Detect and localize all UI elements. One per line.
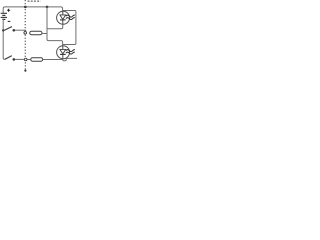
terminal ring below switch S1 wire — [24, 32, 27, 35]
lamp D2 light waves — [66, 50, 75, 55]
lamp D2 cathode stem — [62, 54, 64, 58]
battery B1 positive long plate — [1, 12, 7, 14]
linkage dashed vertical lower segment — [24, 62, 26, 69]
wire left rail from battery - down to switch S2 — [3, 19, 5, 59]
wire from switch S1 contact to linkage — [15, 29, 26, 31]
switch S2 contact dot — [13, 58, 16, 61]
lamp D1 diode triangle — [60, 15, 66, 20]
lamp D2 cathode bar — [60, 53, 66, 55]
node junction dot switch S1 pivot on left rail — [2, 29, 4, 31]
terminal ring on bottom resistor row — [24, 58, 27, 61]
lamp D1 circle — [57, 11, 70, 24]
wire lamp D1 bottom return to middle vertical — [47, 24, 63, 28]
switch S1 blade — [4, 27, 12, 31]
battery B1 positive long plate 2 — [1, 16, 7, 18]
switch S2 blade — [5, 56, 12, 60]
battery B1 negative short plate 2 — [2, 18, 5, 20]
lamp D2 anode stem — [62, 46, 64, 50]
linkage dashed horizontal at top — [28, 0, 41, 2]
node junction dot on top rail at middle drop wire — [46, 6, 49, 9]
lamp D1 cathode bar — [60, 19, 66, 21]
linkage dashed vertical middle segment — [24, 35, 26, 58]
wire branch at lamp D1 top going right — [63, 11, 76, 45]
lamp D1 light waves — [66, 15, 75, 20]
wire middle vertical drop from top rail to lamp D2 feed — [47, 7, 63, 46]
battery B1 plus label — [7, 9, 10, 12]
lamp D2 circle — [57, 46, 70, 59]
node junction dot on top rail at dashed linkage — [24, 6, 27, 9]
lamp D1 anode stem — [62, 11, 64, 15]
node solid dot near bottom of linkage — [24, 70, 26, 72]
wire lamp D2 bottom jog and exit right — [63, 58, 77, 60]
battery B1 negative short plate — [2, 14, 5, 16]
wire resistor R2 right lead to lamp D2 — [43, 59, 63, 61]
wire from switch S2 contact — [15, 58, 25, 60]
resistor R1 body — [30, 31, 42, 34]
lamp D2 diode triangle — [60, 49, 66, 54]
switch S1 contact dot — [13, 29, 16, 32]
resistor R2 body — [31, 58, 43, 62]
battery B1 minus label — [8, 20, 11, 22]
resistor R1 right lead to middle vertical — [42, 33, 47, 35]
resistor R2 left lead — [27, 59, 30, 61]
lamp D1 cathode stem — [62, 20, 64, 24]
wire top rail from battery + to right corner — [3, 7, 62, 13]
linkage dashed vertical upper segment — [24, 0, 26, 31]
